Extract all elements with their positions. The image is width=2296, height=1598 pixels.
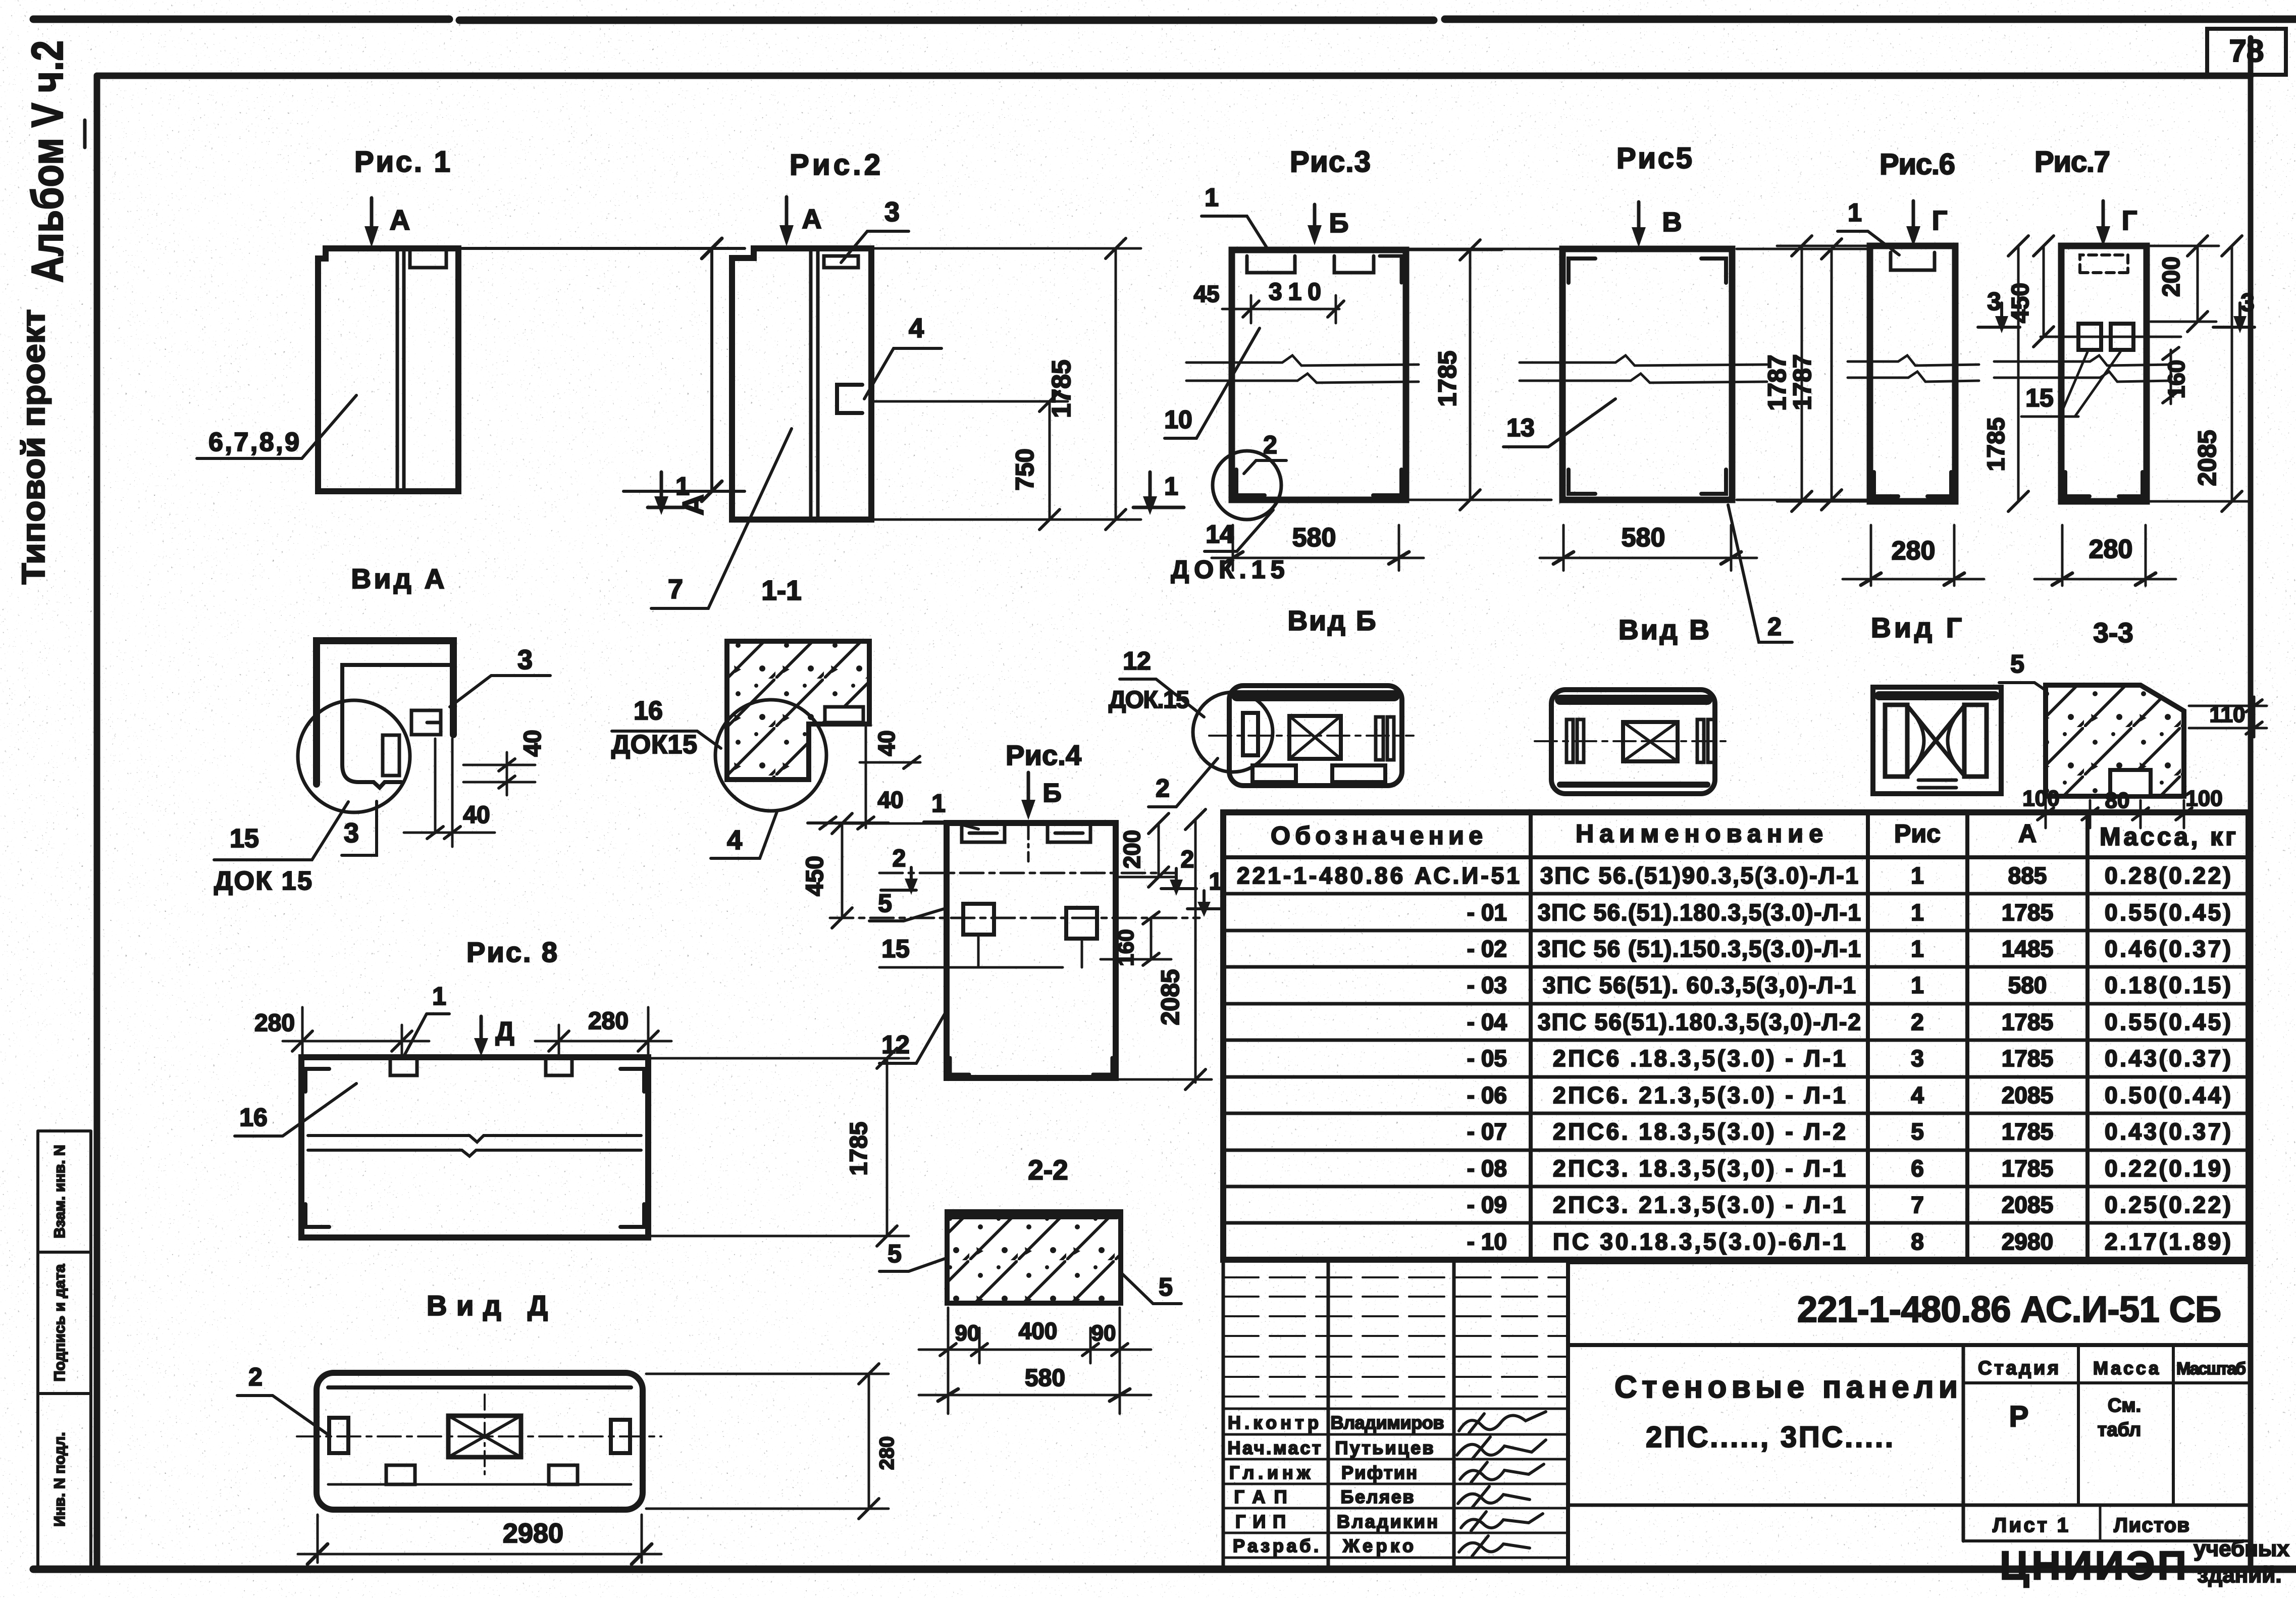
svg-text:1785: 1785 (846, 1122, 872, 1176)
svg-text:Типовой проект: Типовой проект (15, 310, 51, 585)
svg-text:зданий.: зданий. (2197, 1563, 2281, 1587)
svg-text:2: 2 (248, 1363, 263, 1391)
Ris3 break lines (1186, 355, 1419, 366)
svg-text:Инв. N подл.: Инв. N подл. (51, 1432, 68, 1526)
figure Ris.6 (1763, 148, 1984, 586)
Ris6 corner brackets (1874, 472, 1951, 496)
svg-text:Д: Д (495, 1017, 514, 1046)
svg-text:- 01: - 01 (1467, 899, 1507, 925)
svg-text:Жерко: Жерко (1342, 1535, 1414, 1556)
svg-text:15: 15 (881, 935, 910, 963)
signatures squiggles (1459, 1412, 1546, 1433)
svg-text:2: 2 (1181, 846, 1194, 873)
VidG side bars (1885, 705, 1907, 777)
Ris3 corner step top-right (1380, 256, 1401, 283)
svg-text:2ПС6. 21.3,5(3.0) - Л-1: 2ПС6. 21.3,5(3.0) - Л-1 (1553, 1082, 1846, 1108)
svg-text:110: 110 (2210, 702, 2246, 727)
2-2 dim 580 (919, 1394, 1151, 1397)
Ris3 view arrow B (1313, 204, 1317, 231)
svg-text:1: 1 (931, 789, 946, 817)
Ris3 panel outline (1232, 250, 1406, 500)
Ris5 break lines (1520, 355, 1767, 366)
svg-text:7: 7 (668, 574, 683, 604)
Ris7 squares (2078, 324, 2101, 350)
VidB detail circle (1193, 692, 1273, 772)
svg-text:Рис: Рис (1894, 819, 1941, 848)
svg-text:280: 280 (254, 1010, 295, 1037)
svg-text:Вид Г: Вид Г (1871, 612, 1962, 643)
Ris7 top plate dashed (2080, 255, 2128, 273)
revision thin rows (1223, 1277, 1568, 1397)
Ris4 view arrow B (1027, 772, 1030, 806)
VidG top band (1879, 691, 1995, 700)
VidB bottom notches (1253, 765, 1296, 782)
frame top (97, 73, 2251, 79)
svg-text:Лист 1: Лист 1 (1993, 1514, 2068, 1536)
VidD dim right (646, 1374, 889, 1509)
Ris4 cut centerlines (879, 872, 1175, 874)
Ris1 top notch (410, 251, 446, 268)
svg-text:200: 200 (1119, 830, 1145, 869)
VidD top inner line (328, 1385, 631, 1389)
section 1-1 (611, 575, 920, 858)
3-3 dims 100 80 100 (2019, 800, 2241, 828)
svg-text:885: 885 (2008, 862, 2047, 889)
svg-text:ГИП: ГИП (1235, 1511, 1286, 1532)
shared ext line (1408, 249, 1560, 500)
2-2 top band (951, 1212, 1117, 1219)
svg-text:13: 13 (1506, 414, 1535, 442)
svg-text:Р: Р (2009, 1400, 2029, 1433)
Ris8 mid joint lines (308, 1136, 641, 1156)
svg-text:- 04: - 04 (1467, 1009, 1507, 1035)
svg-text:Рис.6: Рис.6 (1880, 148, 1955, 181)
Ris2 dim 1785 (873, 248, 1141, 520)
Ris6 break lines (1848, 355, 1979, 366)
svg-text:3: 3 (517, 645, 533, 675)
svg-text:4: 4 (1911, 1082, 1924, 1108)
svg-text:12: 12 (881, 1030, 910, 1059)
detail Vid A (214, 641, 550, 896)
Ris4 vertical centerline (1027, 824, 1030, 861)
sheet bottom border (33, 1566, 2296, 1573)
Ris8 panel outline (301, 1057, 648, 1238)
Ris2 item4 square (837, 385, 862, 413)
svg-text:40: 40 (873, 730, 900, 756)
svg-text:580: 580 (1622, 523, 1665, 552)
svg-text:1785: 1785 (1983, 418, 2010, 472)
svg-text:10: 10 (1164, 405, 1192, 434)
svg-text:- 07: - 07 (1467, 1118, 1507, 1145)
Ris4 inner squares (963, 904, 994, 935)
svg-text:Рис.2: Рис.2 (790, 148, 880, 181)
Ris5 dim 580 (1540, 525, 1757, 571)
svg-text:- 06: - 06 (1467, 1082, 1507, 1108)
svg-text:1785: 1785 (2002, 1045, 2053, 1071)
Ris2 panel divider (811, 248, 818, 520)
svg-text:45: 45 (1193, 281, 1219, 307)
svg-text:Г: Г (1932, 205, 1948, 236)
svg-text:100: 100 (2185, 786, 2222, 811)
svg-text:3: 3 (344, 818, 359, 848)
Ris7 dim 160 (2170, 350, 2172, 404)
VidA dim 40 lower (404, 739, 495, 847)
svg-text:ДОК.15: ДОК.15 (1109, 687, 1189, 713)
svg-text:16: 16 (239, 1103, 268, 1131)
svg-text:78: 78 (2229, 34, 2264, 69)
svg-text:2: 2 (1263, 431, 1277, 459)
svg-text:В: В (1662, 207, 1682, 237)
svg-text:Взам. инв. N: Взам. инв. N (51, 1145, 68, 1238)
svg-text:160: 160 (2163, 360, 2189, 399)
svg-text:1785: 1785 (1433, 350, 1462, 406)
svg-text:1: 1 (1164, 472, 1178, 500)
svg-text:5: 5 (1911, 1118, 1924, 1145)
svg-text:Листов: Листов (2114, 1514, 2189, 1536)
svg-text:14: 14 (1206, 520, 1234, 548)
svg-text:- 10: - 10 (1467, 1228, 1507, 1255)
svg-text:2ПС6 .18.3,5(3.0) - Л-1: 2ПС6 .18.3,5(3.0) - Л-1 (1553, 1045, 1846, 1071)
Ris4 dim 2085 (1118, 819, 1212, 1082)
VidB right bracket (1376, 717, 1383, 760)
sheet top border (33, 19, 2296, 20)
svg-text:40: 40 (463, 802, 490, 829)
svg-text:А: А (802, 204, 822, 234)
signature row lines (1223, 1409, 1568, 1558)
Ris6 dim 1787 left (1777, 246, 1870, 501)
svg-text:5: 5 (888, 1240, 902, 1268)
svg-text:221-1-480.86 АС.И-51 СБ: 221-1-480.86 АС.И-51 СБ (1797, 1290, 2221, 1330)
svg-text:Рис.7: Рис.7 (2034, 145, 2110, 178)
Ris7 dim 450 (2041, 246, 2181, 337)
Ris3 dim 580 (1212, 525, 1424, 571)
svg-text:Вид В: Вид В (1619, 614, 1709, 645)
svg-text:1785: 1785 (2002, 1009, 2053, 1035)
VidG body (1873, 687, 2001, 794)
svg-text:280: 280 (1892, 536, 1936, 565)
Ris5 corner brackets (1569, 259, 1726, 494)
svg-text:ДОК15: ДОК15 (611, 730, 697, 759)
title block frame lines (1566, 1262, 1570, 1569)
svg-text:1: 1 (675, 472, 690, 500)
svg-text:1785: 1785 (2002, 1155, 2053, 1181)
svg-text:450: 450 (802, 856, 828, 896)
Ris4 corner marks (950, 1058, 1112, 1074)
page number box 78 (2207, 29, 2286, 75)
2-2 hatched body (947, 1212, 1121, 1303)
VidV body (1551, 690, 1715, 794)
Ris4 dim 160 (1101, 918, 1171, 959)
Ris2 dim 750 (873, 401, 1068, 520)
VidA latch rect (383, 735, 399, 776)
svg-text:5: 5 (2010, 650, 2024, 678)
svg-text:Владимиров: Владимиров (1331, 1412, 1444, 1433)
svg-text:Вид А: Вид А (351, 563, 445, 594)
Ris7 break lines (1994, 355, 2171, 366)
svg-text:2085: 2085 (2002, 1192, 2053, 1218)
Ris4 top notches (962, 823, 1005, 842)
table verticals (1531, 812, 2088, 1260)
svg-text:Масса, кг: Масса, кг (2100, 822, 2236, 851)
svg-text:2: 2 (1767, 612, 1782, 641)
VidD left bracket (329, 1418, 348, 1453)
VidA dim 40 upper (463, 752, 535, 795)
svg-text:Рис.4: Рис.4 (1006, 739, 1081, 771)
svg-text:ГАП: ГАП (1234, 1486, 1287, 1507)
figure Ris5 (1408, 142, 1868, 642)
svg-text:40: 40 (519, 730, 546, 756)
svg-text:Беляев: Беляев (1341, 1486, 1414, 1507)
svg-text:100: 100 (2022, 786, 2059, 811)
svg-text:Альбом V ч.2: Альбом V ч.2 (22, 40, 72, 283)
svg-text:3: 3 (2240, 288, 2255, 317)
svg-text:3ПС 56 (51).150.3,5(3.0)-Л-1: 3ПС 56 (51).150.3,5(3.0)-Л-1 (1538, 936, 1861, 962)
svg-text:2ПС6. 18.3,5(3.0) - Л-2: 2ПС6. 18.3,5(3.0) - Л-2 (1553, 1118, 1846, 1145)
Ris8 dim 280 left (283, 1007, 429, 1055)
svg-text:3ПС 56.(51)90.3,5(3.0)-Л-1: 3ПС 56.(51)90.3,5(3.0)-Л-1 (1540, 862, 1858, 889)
svg-text:3ПС 56.(51).180.3,5(3.0)-Л-1: 3ПС 56.(51).180.3,5(3.0)-Л-1 (1538, 899, 1861, 925)
svg-text:2: 2 (1911, 1009, 1924, 1035)
svg-text:3: 3 (884, 197, 900, 227)
Ris8 view arrow D (480, 1016, 483, 1044)
Ris6 top plate (1891, 252, 1935, 270)
svg-text:Рифтин: Рифтин (1341, 1462, 1417, 1483)
svg-text:2-2: 2-2 (1028, 1154, 1068, 1185)
svg-text:580: 580 (2008, 972, 2047, 998)
Ris5 dim 1787 right (1737, 249, 1868, 500)
Ris2 panel outline (732, 248, 871, 520)
figure Ris.2 (648, 148, 1184, 608)
view Vid G (1871, 612, 2001, 794)
macron under Roman V of album (83, 120, 87, 147)
svg-text:90: 90 (1091, 1321, 1116, 1346)
VidA plate item3 (411, 710, 441, 735)
svg-text:2ПС3. 21.3,5(3.0) - Л-1: 2ПС3. 21.3,5(3.0) - Л-1 (1553, 1192, 1846, 1218)
Ris5 view arrow V (1637, 202, 1641, 233)
Ris4 panel outline (947, 823, 1116, 1078)
svg-text:4: 4 (727, 825, 742, 855)
Ris7 dim 280 (2034, 525, 2176, 586)
svg-text:1: 1 (1911, 899, 1924, 925)
Ris3 detail circle (1213, 451, 1281, 520)
svg-text:2085: 2085 (1156, 969, 1184, 1025)
section 3-3 (1999, 617, 2267, 828)
Ris1 dim A line (710, 248, 713, 491)
view Vid B (1109, 605, 1414, 807)
figure Ris.4 (802, 739, 1222, 1090)
svg-text:Рис5: Рис5 (1616, 142, 1692, 175)
VidD bottom notches (386, 1465, 415, 1484)
VidV top band (1560, 695, 1707, 705)
svg-text:Рис. 8: Рис. 8 (466, 936, 557, 968)
Ris7 dim 2085 right (2149, 246, 2252, 501)
1-1 keyway plate (825, 707, 863, 723)
1-1 dim 40 bottom (808, 821, 889, 824)
svg-text:1485: 1485 (2002, 936, 2053, 962)
svg-text:5: 5 (878, 889, 892, 917)
svg-text:280: 280 (588, 1008, 629, 1035)
svg-text:Б: Б (1042, 779, 1061, 808)
Ris4 dim 450 (836, 823, 947, 918)
VidD right bracket (611, 1420, 630, 1453)
3-3 hatched body (2046, 685, 2184, 796)
margin column boxes (38, 1131, 91, 1569)
svg-text:- 03: - 03 (1467, 972, 1507, 998)
VidD X box (448, 1416, 521, 1457)
svg-text:Масштаб: Масштаб (2176, 1359, 2246, 1378)
svg-text:1785: 1785 (1047, 359, 1076, 418)
svg-text:580: 580 (1025, 1365, 1065, 1391)
Ris3 corner bracket bottom-right (1373, 470, 1401, 495)
svg-text:- 09: - 09 (1467, 1192, 1507, 1218)
svg-text:3: 3 (1987, 287, 2001, 316)
VidD centerline (297, 1435, 661, 1437)
svg-text:1-1: 1-1 (761, 575, 802, 606)
svg-text:7: 7 (1911, 1192, 1924, 1218)
Ris3 dim 1785 right (1408, 250, 1502, 500)
VidG bowtie (1908, 707, 1963, 775)
svg-text:Владикин: Владикин (1337, 1511, 1438, 1532)
Ris1 dim A extension lines (462, 248, 745, 491)
VidD dim 2980 (298, 1515, 661, 1563)
Ris7 view arrow G (2102, 201, 2105, 232)
Ris2 view arrow A (785, 197, 789, 231)
svg-text:221-1-480.86 АС.И-51: 221-1-480.86 АС.И-51 (1237, 862, 1520, 889)
svg-text:1787: 1787 (1763, 354, 1791, 410)
section 2-2 (879, 1154, 1181, 1414)
Ris5 panel outline (1562, 249, 1732, 500)
Ris3 top keyway plates (1247, 256, 1374, 273)
Ris7 dim 200 (2149, 246, 2219, 322)
figure Ris.1 (197, 145, 745, 594)
table row lines (1223, 894, 2249, 1223)
table outer (1223, 812, 2249, 1260)
title block (1223, 1260, 2249, 1569)
svg-text:450: 450 (2007, 283, 2034, 323)
svg-text:8: 8 (1911, 1228, 1924, 1255)
VidD body (317, 1373, 643, 1510)
Ris1 view arrow A (370, 198, 374, 232)
svg-text:2ПС3. 18.3,5(3,0) - Л-1: 2ПС3. 18.3,5(3,0) - Л-1 (1553, 1155, 1846, 1181)
VidV right bracket (1697, 719, 1704, 762)
figure Ris.8 (235, 936, 909, 1246)
svg-text:15: 15 (2025, 384, 2054, 412)
Ris6 panel outline (1870, 246, 1955, 501)
figure Ris.3 (1164, 145, 1502, 584)
svg-text:учебных: учебных (2194, 1536, 2289, 1561)
svg-text:90: 90 (955, 1321, 980, 1346)
Ris6 view arrow G (1912, 201, 1915, 232)
svg-text:2980: 2980 (2002, 1228, 2053, 1255)
1-1 hatched block (727, 641, 869, 780)
frame left (94, 76, 100, 1569)
Ris7 dim 1785 left (2017, 246, 2020, 501)
svg-text:Подпись и дата: Подпись и дата (51, 1264, 68, 1381)
VidD X box centerline (484, 1395, 486, 1477)
Ris2 top plate item3 (824, 256, 858, 268)
Ris6 dim 280 (1843, 525, 1984, 586)
VidG bottom plate (1918, 780, 1956, 788)
svg-text:А: А (2018, 819, 2037, 848)
signature block verticals (1223, 1260, 1454, 1569)
svg-text:А: А (390, 204, 410, 236)
VidV X box (1623, 722, 1678, 761)
view Vid V (1535, 614, 1732, 794)
Ris8 dim 280 right (535, 1007, 671, 1055)
Ris1 panel divider (397, 248, 404, 491)
svg-text:750: 750 (1011, 448, 1039, 490)
svg-text:2: 2 (1156, 774, 1170, 802)
VidV left bracket (1567, 719, 1573, 762)
svg-text:2980: 2980 (503, 1518, 563, 1549)
data table (1223, 812, 2249, 1260)
svg-text:- 08: - 08 (1467, 1155, 1507, 1181)
svg-text:15: 15 (230, 824, 259, 853)
svg-text:2085: 2085 (2193, 430, 2221, 486)
svg-text:Вид Б: Вид Б (1288, 605, 1376, 636)
svg-text:1: 1 (1911, 972, 1924, 998)
svg-text:Вид Д: Вид Д (427, 1290, 548, 1321)
VidA corner outline outer (317, 641, 453, 784)
VidB body (1229, 686, 1402, 786)
figure Ris.7 (1978, 145, 2255, 586)
svg-text:табл: табл (2098, 1419, 2141, 1440)
svg-text:1: 1 (432, 982, 446, 1010)
3-3 dim 110 (2189, 697, 2267, 737)
frame right (2248, 38, 2254, 1569)
svg-text:1: 1 (1205, 183, 1219, 212)
3-3 bottom notch (2110, 770, 2151, 796)
Ris2 section mark 1 right (1133, 472, 1184, 507)
Ris2 section mark 1 left (648, 472, 684, 507)
VidB centerline (1209, 735, 1414, 737)
1-1 dim 40 right (860, 727, 920, 828)
svg-text:400: 400 (1019, 1318, 1058, 1344)
svg-text:- 05: - 05 (1467, 1045, 1507, 1071)
svg-text:3: 3 (1911, 1045, 1924, 1071)
VidB top band (1237, 690, 1394, 701)
table header line (1223, 855, 2249, 859)
VidA detail circle (298, 700, 410, 812)
svg-text:- 02: - 02 (1467, 936, 1507, 962)
Ris7 corner brackets (2065, 472, 2143, 496)
VidV bottom band (1560, 782, 1707, 788)
VidB center X box (1289, 716, 1341, 759)
svg-text:2085: 2085 (2002, 1082, 2053, 1108)
svg-text:ДОК 15: ДОК 15 (214, 866, 312, 896)
svg-text:4: 4 (909, 313, 924, 343)
VidD bottom inner line (328, 1483, 631, 1486)
Ris3 corner bracket bottom-left (1236, 470, 1265, 495)
svg-text:310: 310 (1269, 279, 1321, 305)
Ris7 panel outline (2061, 246, 2147, 501)
Ris8 top notches (390, 1057, 572, 1075)
VidV centerline (1535, 740, 1732, 742)
svg-text:1785: 1785 (2002, 1118, 2053, 1145)
2-2 dims 90 400 90 (919, 1308, 1151, 1414)
svg-text:Обозначение: Обозначение (1271, 821, 1483, 850)
svg-text:6,7,8,9: 6,7,8,9 (208, 428, 299, 457)
svg-text:580: 580 (1292, 523, 1336, 552)
Ris8 dim 1785 right (651, 1058, 909, 1236)
svg-text:5: 5 (1159, 1273, 1173, 1301)
svg-text:1: 1 (1911, 862, 1924, 889)
svg-text:1785: 1785 (2002, 899, 2053, 925)
Ris4 dim 200 (1118, 823, 1176, 877)
1-1 detail circle (715, 700, 826, 811)
svg-text:12: 12 (1123, 647, 1151, 675)
Ris8 corner brackets (305, 1069, 644, 1227)
